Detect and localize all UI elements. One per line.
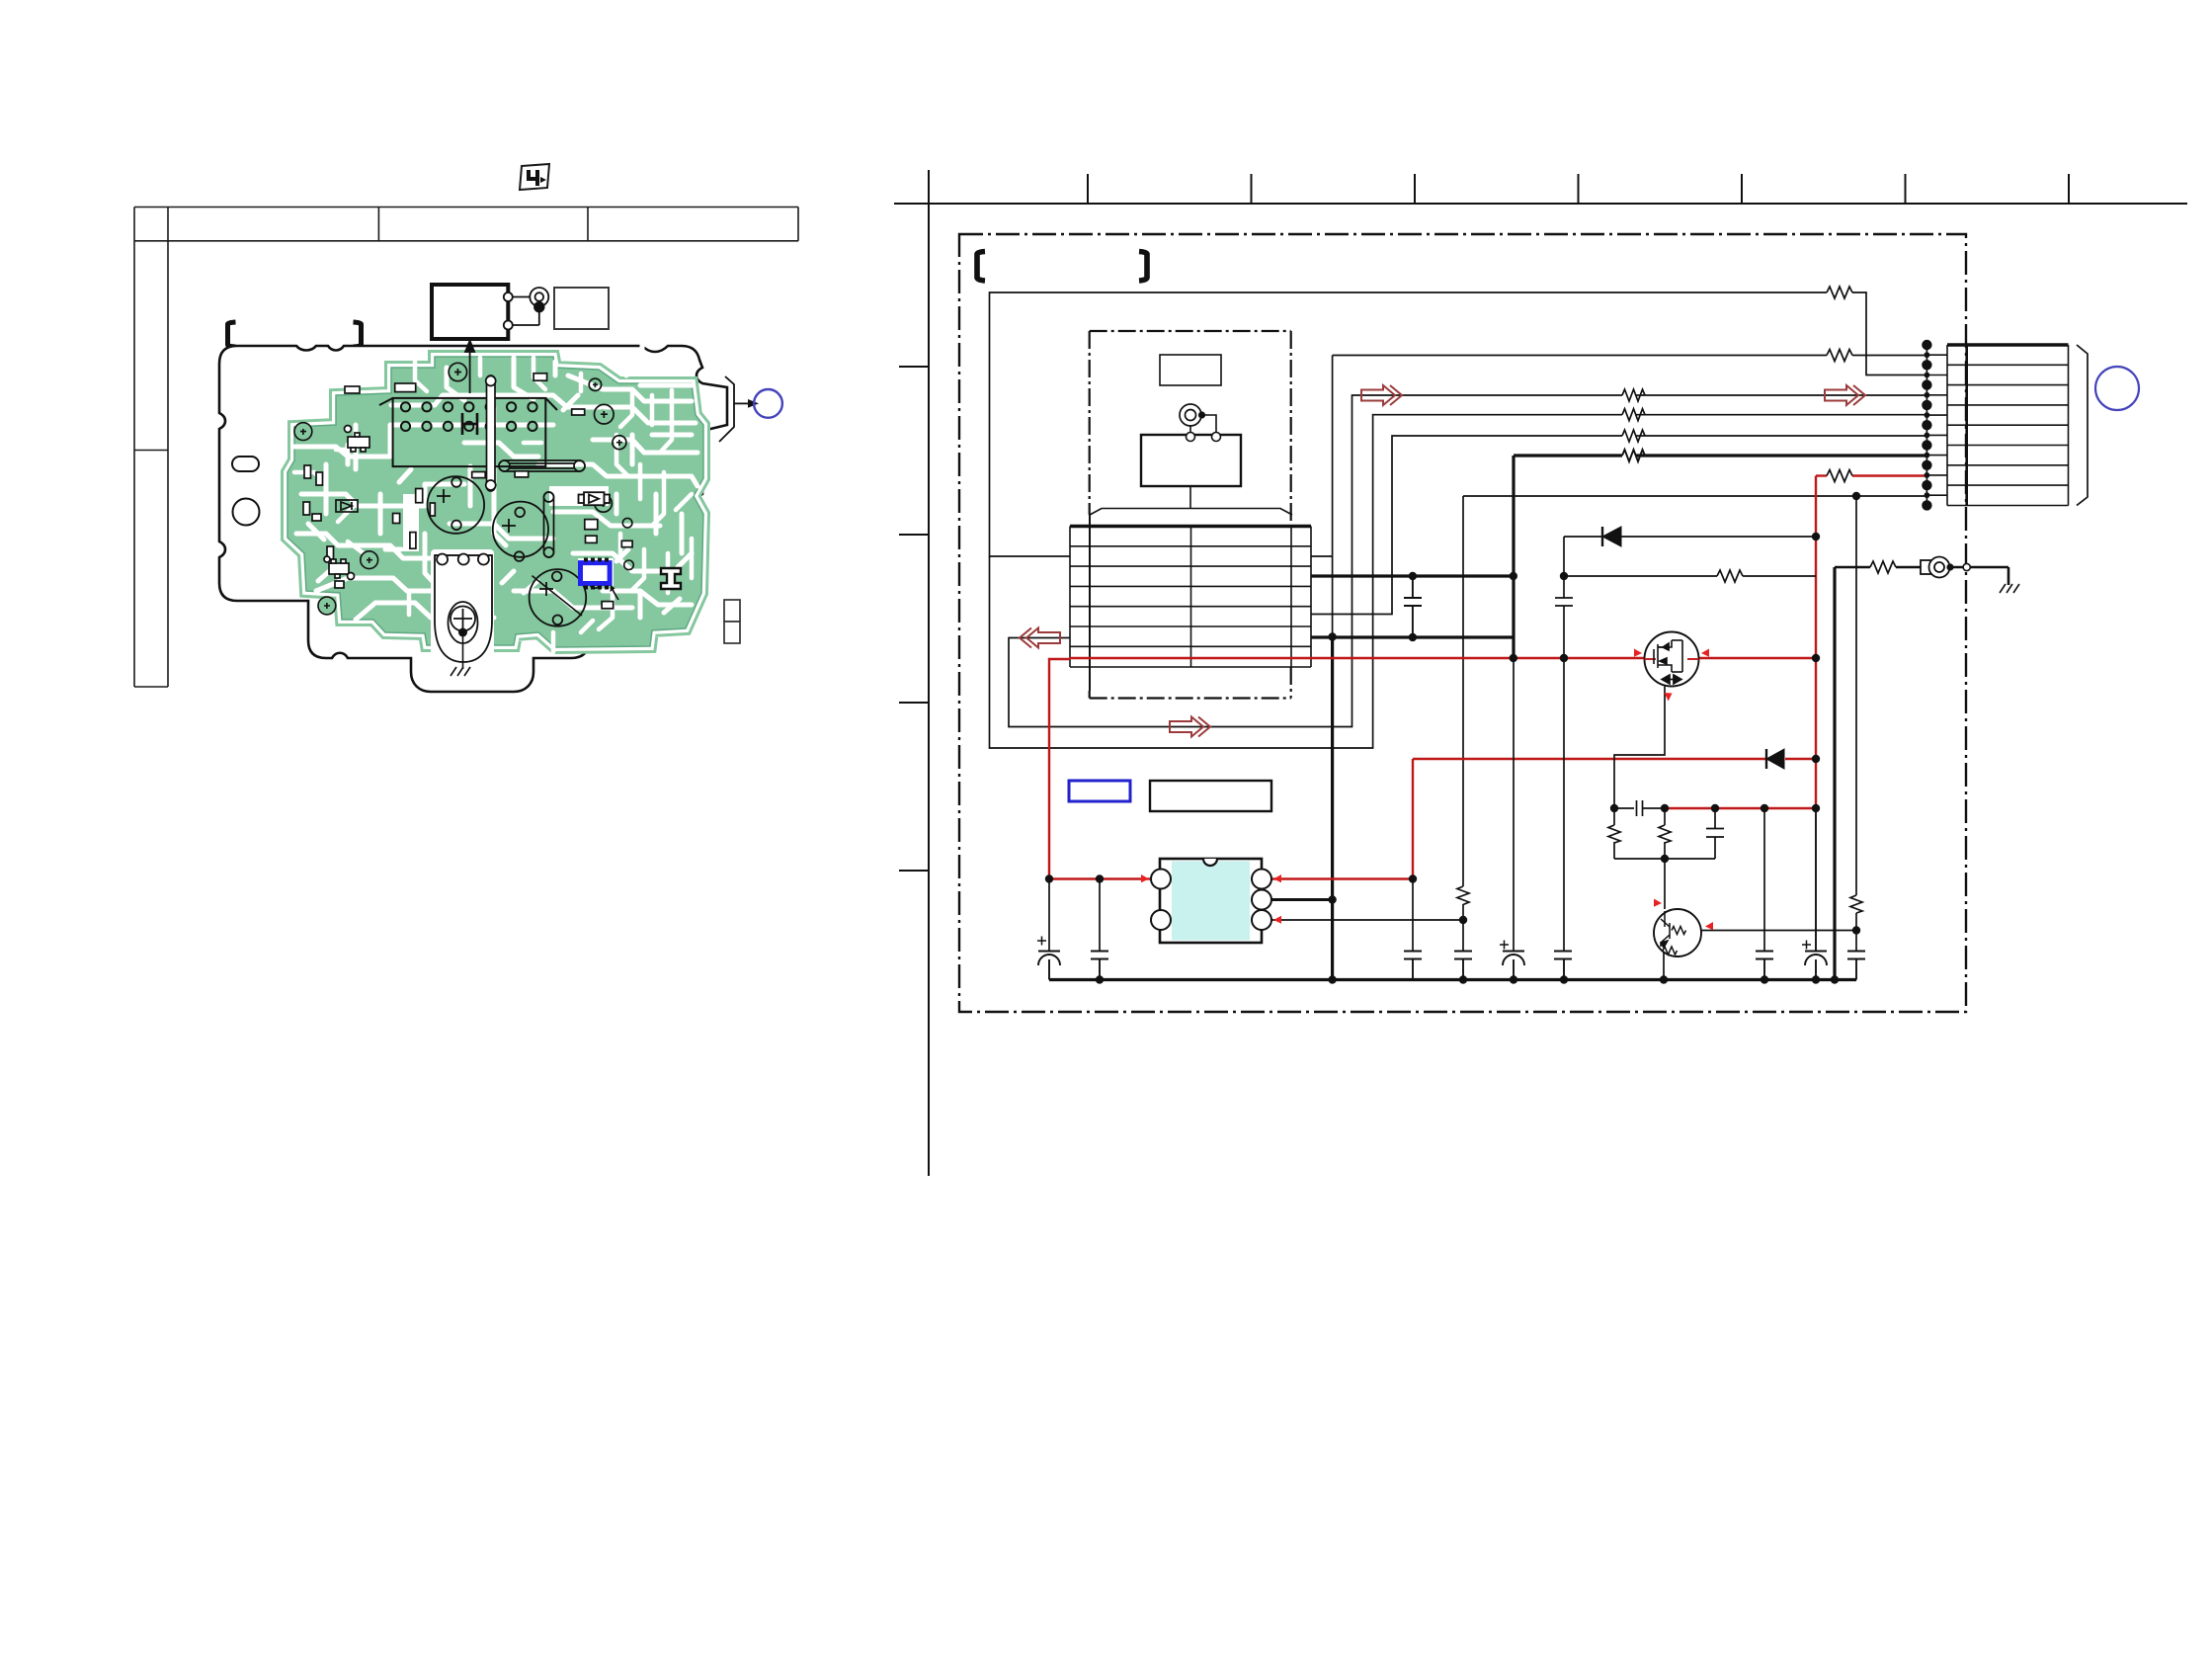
mounting slot hole bbox=[232, 457, 259, 471]
wire thermistor to cell bbox=[1202, 415, 1217, 433]
jack J1 beside connector bbox=[504, 288, 549, 330]
resistor R6 on thick wire bbox=[1622, 450, 1645, 461]
mounting hole bbox=[233, 499, 260, 526]
gate wire of Q1 bbox=[1614, 687, 1665, 809]
transistor Q2 bbox=[1654, 909, 1701, 957]
pointer arrow to blue component bbox=[612, 587, 619, 601]
thick output wire bbox=[1514, 454, 1926, 457]
ground lead and symbol bbox=[458, 628, 467, 637]
white component clearances bbox=[403, 486, 614, 660]
label rect bbox=[1150, 781, 1271, 811]
resistor R4 on wire4 bbox=[1622, 409, 1645, 421]
connector side bracket bbox=[2077, 345, 2088, 506]
small electrolytic circles with plus bbox=[449, 363, 626, 512]
cap C11 bbox=[1847, 952, 1865, 980]
resistor R3 on wire2 bbox=[1622, 389, 1645, 401]
diode component D on PCB bbox=[579, 492, 611, 505]
blue option rect bbox=[1069, 781, 1130, 801]
pot / ground pad area outline bbox=[435, 555, 492, 662]
resistor R8 on red feed bbox=[1827, 470, 1852, 482]
schematic grid ruler bbox=[894, 170, 2187, 1176]
copper ground plane halo bbox=[287, 357, 703, 647]
base feed vertical with resistor R10 bbox=[1850, 496, 1862, 952]
snubber resistor R9 wire bbox=[1564, 570, 1816, 582]
thick winding wire row3 bbox=[1311, 574, 1514, 577]
MOSFET Q1 bbox=[1645, 632, 1699, 687]
white trace channels on copper bbox=[294, 358, 697, 620]
flow arrow left at block bbox=[1020, 628, 1060, 648]
SOT23 transistor 2 on PCB bbox=[324, 556, 355, 580]
wire row5 return bbox=[1311, 436, 1926, 615]
cap C4 bbox=[1091, 952, 1108, 980]
electrolytic cap C3 bbox=[1037, 937, 1060, 980]
thick winding wire row6 bbox=[1311, 635, 1514, 638]
snubber vertical with capacitor C2 bbox=[1555, 537, 1573, 952]
electrolytic cap C10 bbox=[1802, 808, 1827, 980]
dumbbell cutout bbox=[661, 568, 681, 589]
connector block table (pack terminals) bbox=[1070, 527, 1311, 668]
red pointer ticks bbox=[1141, 649, 1713, 931]
capacitor C1 between windings bbox=[1404, 576, 1422, 637]
cell stem bbox=[1189, 486, 1191, 509]
green via pads bbox=[294, 423, 378, 615]
IC output wire thick bbox=[1271, 898, 1333, 901]
border line through connector bbox=[1965, 345, 1968, 506]
flow arrow right on wire2 bbox=[1361, 385, 1402, 405]
inner dash-dot box (power pack) bbox=[1090, 331, 1291, 699]
diode symbol small left bbox=[336, 500, 358, 512]
trimmer body bbox=[449, 602, 478, 643]
header pads row2 bbox=[401, 422, 537, 431]
long jumper wire component bbox=[499, 460, 585, 471]
chassis ground symbol bbox=[2000, 584, 2019, 593]
bracket label schematic bbox=[977, 252, 1147, 282]
title table top-left bbox=[134, 208, 798, 688]
gate RC network bbox=[1608, 800, 1724, 909]
IC U1 body bbox=[1160, 859, 1262, 943]
small circles pads right area bbox=[590, 518, 633, 588]
diode D2 on charge wire bbox=[1766, 749, 1784, 769]
thick vertical join bbox=[1512, 456, 1515, 658]
connector CN above PCB bbox=[432, 285, 508, 339]
thick return vertical bbox=[1833, 567, 1836, 980]
resistor R5 on wire5 bbox=[1622, 430, 1645, 442]
cap C8 bbox=[1554, 952, 1572, 980]
wire loop L2 bbox=[1009, 395, 1926, 727]
small rects at lower right of board bbox=[724, 600, 740, 622]
motor circle blue bbox=[2095, 367, 2139, 410]
wire loop L1 top bbox=[990, 292, 1927, 748]
electrolytic capacitor big circle 1 bbox=[428, 476, 485, 534]
board edge chevron bbox=[719, 376, 734, 442]
long vertical sense wire bbox=[1332, 356, 1334, 637]
flow arrow right on loop bbox=[1170, 717, 1210, 737]
small chip components on PCB bbox=[303, 374, 632, 609]
header pads row1 bbox=[401, 402, 537, 411]
resistor R2 on wire1 bbox=[1827, 350, 1852, 362]
jumper H symbol bbox=[462, 413, 477, 435]
emitter wire of Q2 bbox=[1663, 953, 1665, 980]
arrow from PCB header to connector bbox=[465, 341, 474, 393]
SOT23 transistor on PCB bbox=[345, 426, 370, 453]
thick sense vertical to rail bbox=[1331, 637, 1334, 980]
resistor R1 on top wire bbox=[1827, 287, 1852, 298]
bottom rail bbox=[1049, 978, 1856, 981]
cap C5 bbox=[1404, 952, 1422, 980]
arrow to test point bbox=[734, 402, 748, 404]
junction dots bbox=[1045, 492, 1860, 984]
electrolytic cap C7 bbox=[1500, 941, 1524, 980]
ring terminal ground wire bbox=[1835, 561, 2008, 585]
collector wire of Q2 bbox=[1701, 930, 1856, 932]
logo mark top center bbox=[520, 164, 549, 190]
outer dash-dot boundary of board block bbox=[959, 234, 1966, 1012]
battery cell block bbox=[1141, 435, 1241, 486]
IC pins bbox=[1151, 870, 1271, 931]
diode D1 to connector bbox=[1564, 527, 1816, 546]
FB vertical with resistor R7 bbox=[1457, 496, 1469, 952]
thermistor double circle bbox=[1180, 404, 1201, 426]
IC FB wire bbox=[1271, 919, 1463, 921]
stubs from pins to connector bbox=[1926, 355, 1947, 495]
flow arrow right near connector bbox=[1825, 385, 1865, 405]
FB sense wire bbox=[1463, 495, 1856, 497]
bracket label PCB bbox=[228, 322, 362, 347]
motor connector pin column bbox=[1925, 345, 1927, 507]
copper ground plane bbox=[287, 357, 703, 647]
border crossing circle bbox=[1963, 563, 1970, 570]
vertical jumper component bbox=[486, 375, 496, 491]
electrolytic capacitor big circle 2 bbox=[493, 502, 548, 557]
pot pads bbox=[435, 554, 492, 556]
divider vertical below diode node bbox=[1763, 808, 1765, 952]
battery label rect inside pack bbox=[1160, 355, 1221, 385]
header connector block on PCB bbox=[379, 398, 557, 466]
cap C9 bbox=[1756, 952, 1773, 980]
contact brace bbox=[1090, 509, 1292, 516]
red power path bbox=[1049, 476, 1926, 879]
arrow from PCB to connector redraw bbox=[465, 341, 474, 393]
ring terminal lug bbox=[1921, 557, 1950, 578]
vertical jumper component 2 bbox=[544, 492, 554, 557]
test point blue circle bbox=[754, 389, 782, 418]
cap C6 bbox=[1454, 952, 1472, 980]
motor connector box bbox=[1947, 345, 2069, 506]
wire1 top bbox=[1333, 355, 1926, 357]
component box right of jack bbox=[554, 288, 609, 329]
input cap verticals bbox=[1049, 658, 1514, 952]
electrolytic capacitor big circle 3 bbox=[530, 569, 587, 626]
wire row2 stub bbox=[1311, 555, 1333, 557]
node dot on thermistor bbox=[1198, 411, 1205, 418]
blue SMD component bbox=[581, 563, 611, 584]
PCB board outline bbox=[219, 346, 727, 692]
